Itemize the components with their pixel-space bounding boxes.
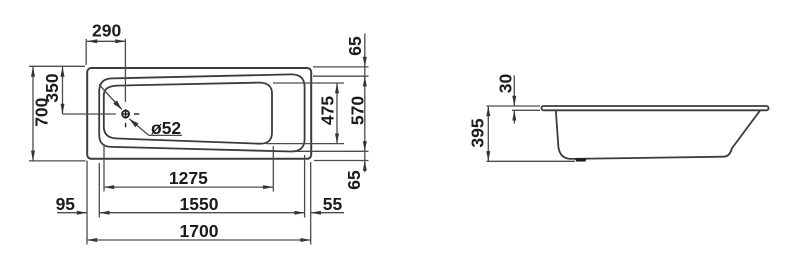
drain symbol — [122, 111, 129, 118]
tub foot (side view) — [575, 158, 587, 161]
svg-text:475: 475 — [318, 96, 338, 125]
extension line from 350 dimension to drain (horizontal through drain) — [63, 113, 116, 115]
extension line from 290 down to drain — [124, 41, 126, 102]
dimension 290 (top) — [86, 39, 125, 65]
dimension 1275 (bottom) — [104, 145, 273, 192]
dimension 95 (bottom left, outside arrow) — [57, 211, 87, 215]
dimension 475 (right) — [335, 83, 339, 144]
dimension 55 (bottom right, outside arrow) — [311, 211, 344, 215]
svg-text:55: 55 — [323, 194, 343, 214]
drain leader line lower with label ø52 — [129, 119, 182, 135]
bathtub basin bottom outline (top view) — [104, 83, 272, 144]
svg-text:1275: 1275 — [169, 168, 208, 188]
drain leader line upper — [99, 85, 122, 110]
svg-text:1700: 1700 — [180, 221, 219, 241]
rim slab (side view) — [542, 106, 769, 110]
dimension 1700 (bottom) — [87, 161, 311, 245]
dimension 700 (far left) — [29, 66, 86, 161]
svg-text:395: 395 — [467, 118, 487, 147]
bathtub outer edge (top view) — [87, 68, 311, 159]
svg-text:95: 95 — [56, 194, 76, 214]
svg-text:1550: 1550 — [180, 194, 219, 214]
dimension 350 (left) — [61, 67, 65, 115]
bathtub rim inner edge (top view) — [99, 74, 304, 151]
svg-text:570: 570 — [347, 96, 367, 125]
svg-text:65: 65 — [344, 170, 364, 190]
svg-text:65: 65 — [345, 36, 365, 56]
dimension 1550 (bottom) — [99, 155, 304, 218]
dimension chain 65 / 570 / 65 (far right vertical line) — [363, 34, 367, 173]
svg-text:30: 30 — [495, 74, 515, 94]
dimension 395 (side view) — [486, 106, 575, 161]
tub body profile (side view) — [556, 110, 760, 159]
right side extension lines — [266, 67, 369, 161]
svg-text:290: 290 — [92, 20, 121, 40]
dimension 30 (side view) — [512, 75, 540, 123]
svg-text:ø52: ø52 — [151, 118, 181, 138]
svg-text:350: 350 — [42, 73, 62, 102]
